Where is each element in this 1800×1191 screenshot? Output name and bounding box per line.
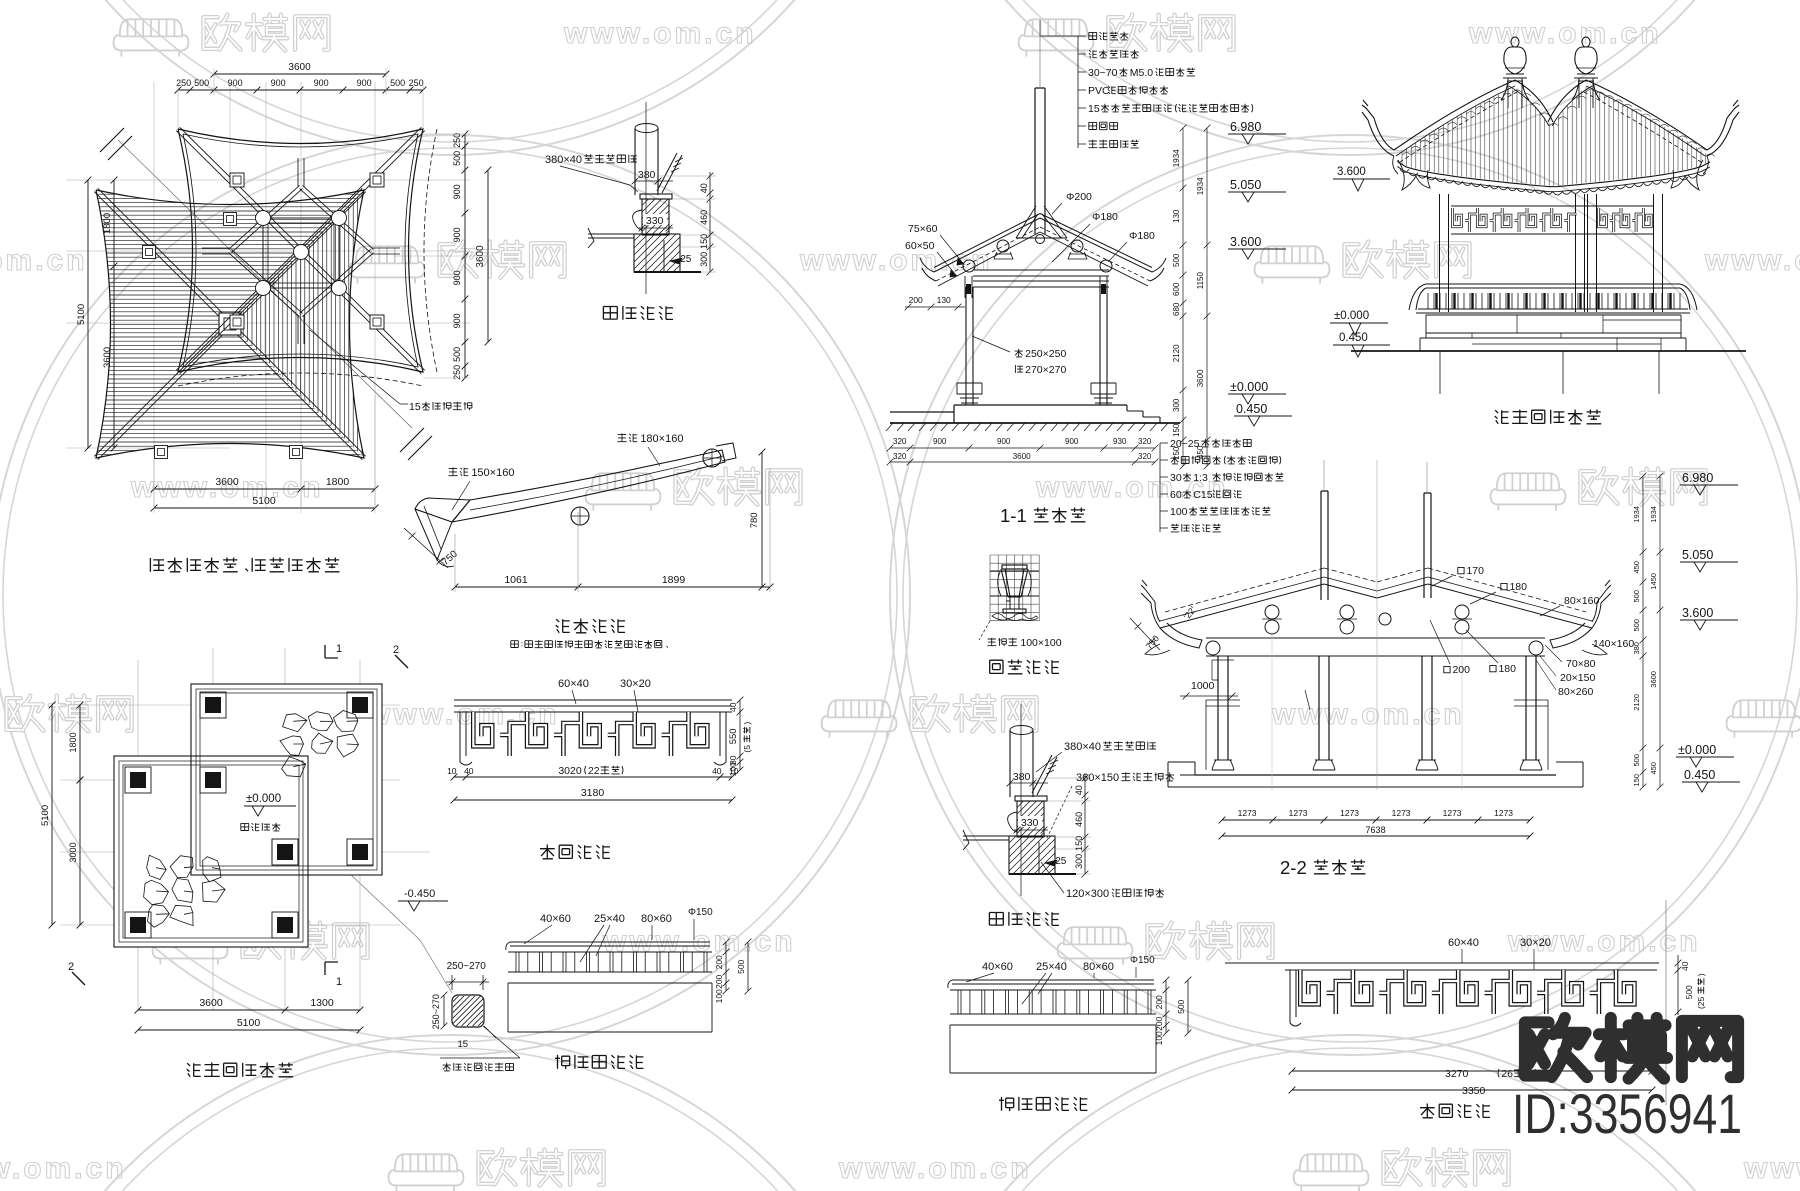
roof plan top dimension chain	[175, 87, 427, 94]
svg-text:2-2: 2-2	[1280, 857, 1307, 878]
svg-text:120×300: 120×300	[1066, 888, 1109, 900]
section 1-1: ground hatch	[886, 423, 1168, 431]
svg-text:180: 180	[1498, 663, 1516, 675]
section 2-2: eave horn left	[1141, 580, 1160, 628]
section 2-2: floor slab and steps	[1195, 774, 1556, 776]
elevation: balustrade top rail curved ends	[1409, 284, 1697, 310]
svg-text:500: 500	[452, 151, 462, 166]
elevation: rafînters (vertical roof texture)	[1402, 87, 1706, 186]
svg-text:320: 320	[893, 437, 907, 446]
svg-text:1273: 1273	[1238, 808, 1257, 818]
svg-text:): )	[1696, 973, 1706, 976]
svg-text:3600: 3600	[102, 347, 113, 368]
svg-text:0.450: 0.450	[1684, 768, 1715, 782]
svg-text:6.980: 6.980	[1230, 120, 1261, 134]
section 2-2	[1130, 460, 1740, 878]
corner rafter bottom dims	[452, 584, 774, 591]
svg-text:1: 1	[336, 976, 342, 988]
svg-text:3.600: 3.600	[1337, 166, 1366, 178]
section 2-2: columns	[1218, 656, 1536, 760]
svg-text:5100: 5100	[237, 1017, 261, 1029]
seat sill: seat plank	[1015, 796, 1047, 801]
column section: square with diagonal hatch	[452, 995, 484, 1027]
railing: top rail	[950, 980, 1156, 990]
svg-text:2120: 2120	[1172, 344, 1181, 362]
caption: roof plan / roof frame plan	[150, 558, 339, 572]
elevation: right corner horn	[1707, 100, 1739, 156]
svg-text:0.450: 0.450	[1236, 402, 1267, 416]
seat sill: center line	[1020, 704, 1022, 896]
svg-text:900: 900	[452, 184, 462, 199]
railing: balusters	[516, 952, 707, 972]
svg-text:60×40: 60×40	[1448, 937, 1479, 949]
elevation: corner fascia waves left	[1398, 160, 1430, 190]
svg-text:380: 380	[638, 169, 656, 181]
svg-text:40: 40	[712, 766, 722, 776]
svg-text:15: 15	[457, 1039, 468, 1050]
inner ring beam square with purlin circles	[263, 218, 339, 288]
pavilion plan bottom dims	[135, 1007, 364, 1014]
railing: skirt band	[950, 1025, 1156, 1073]
section mark 1 bottom	[325, 962, 338, 975]
seat sill: brick pier hatched	[1017, 801, 1044, 837]
corner rafter: young rafter steep piece	[415, 498, 470, 522]
railing right dims	[723, 939, 730, 995]
hanging lattice 2: left end drop	[1290, 970, 1301, 1026]
svg-text:80×60: 80×60	[641, 913, 672, 925]
svg-text:www.om.cn: www.om.cn	[1704, 244, 1800, 277]
right vertical dim 780	[759, 449, 766, 591]
svg-text:1273: 1273	[1494, 808, 1513, 818]
caption hanging lattice detail 1	[540, 845, 610, 859]
svg-text:500: 500	[736, 959, 746, 973]
section 1-1: mast pendant tip	[1036, 235, 1045, 244]
seat sill detail 2	[963, 704, 1174, 926]
floor build-up callout list	[1160, 443, 1168, 532]
svg-text:1273: 1273	[1392, 808, 1411, 818]
pavilion plan left dims	[77, 702, 84, 784]
finial detail: grid mesh	[990, 555, 1039, 621]
svg-text:3.600: 3.600	[1682, 606, 1713, 620]
elevation: right gable ridge band	[1586, 80, 1707, 150]
section 1-1 right dim chain B	[1204, 125, 1211, 470]
seat sill: pier left curl	[633, 210, 642, 230]
break slashes bottom-right	[400, 428, 432, 460]
svg-text:Φ200: Φ200	[1066, 191, 1092, 203]
svg-text:380: 380	[1013, 771, 1031, 783]
section 1-1 right dim chain A	[1180, 125, 1187, 470]
label reinforced concrete column	[440, 1026, 520, 1058]
section 1-1: hanging eave posts	[965, 276, 972, 298]
finial detail: mortar scribbles	[992, 614, 1038, 621]
svg-text:780: 780	[749, 512, 760, 528]
svg-text:25: 25	[1055, 856, 1067, 867]
svg-text:200: 200	[1154, 1016, 1164, 1030]
svg-text:1273: 1273	[1289, 808, 1308, 818]
svg-text:40: 40	[1680, 961, 1690, 971]
svg-text:100: 100	[1154, 1031, 1164, 1045]
wuwangkao railing detail 1	[506, 907, 752, 1069]
roof plan drawing	[66, 62, 493, 572]
svg-text:330: 330	[646, 215, 664, 227]
seat sill: ground line	[1009, 873, 1076, 875]
svg-text:5.050: 5.050	[1230, 178, 1261, 192]
center column marker of roof surface	[219, 313, 241, 335]
svg-text:100×100: 100×100	[1020, 637, 1061, 649]
lattice 1 bottom dims	[451, 774, 736, 781]
svg-text:600: 600	[1172, 282, 1181, 296]
svg-text:-0.450: -0.450	[404, 888, 435, 900]
roof frame outline (upper-right star square)	[178, 129, 423, 372]
svg-text:1934: 1934	[1632, 506, 1641, 523]
svg-text:1450: 1450	[1649, 573, 1658, 590]
svg-text:3600: 3600	[199, 997, 223, 1009]
svg-text:2120: 2120	[1632, 694, 1641, 711]
svg-text:1:3: 1:3	[1193, 472, 1208, 484]
section 1-1: purlin circles	[997, 240, 1009, 252]
svg-text:3600: 3600	[215, 476, 239, 488]
svg-text:6.980: 6.980	[1682, 471, 1713, 485]
svg-text:M5.0: M5.0	[1130, 67, 1154, 79]
corner rafter detail	[404, 433, 773, 648]
corner rafter (qiangjiao) main beam	[452, 450, 725, 522]
section 2-2: masts	[1321, 491, 1328, 600]
svg-text:www.om.cn: www.om.cn	[366, 698, 560, 731]
svg-text:130: 130	[1172, 209, 1181, 223]
elevation: finial 1	[1511, 37, 1519, 47]
svg-text:550: 550	[728, 728, 739, 744]
section 1-1 bottom dims	[887, 445, 1159, 452]
finial detail: vase urn profile	[1002, 565, 1027, 569]
seat sill: seat plank	[640, 194, 672, 199]
pavilion plan: outer walls double line	[114, 684, 382, 947]
section 1-1: kingpost struts	[1016, 206, 1067, 238]
hanging lattice 2: meander band	[1300, 970, 1634, 1014]
elevation: columns	[1440, 194, 1663, 312]
svg-text:3600: 3600	[1013, 452, 1031, 461]
seat sill: pier left curl	[1008, 812, 1017, 832]
seat sill detail 1	[545, 102, 718, 320]
svg-text:500: 500	[194, 78, 209, 88]
svg-text:500: 500	[1176, 999, 1186, 1013]
seat sill: right dimension stack	[1082, 774, 1089, 877]
svg-text:460: 460	[699, 210, 709, 225]
corner rafter: pin circle mid	[571, 507, 589, 525]
svg-text:200: 200	[1154, 995, 1164, 1009]
note 15 thick glass-fiber mesh	[310, 330, 408, 404]
svg-text:3600: 3600	[1196, 369, 1205, 387]
svg-text:900: 900	[314, 78, 329, 88]
pavilion plan: inner corner post	[272, 839, 298, 865]
label young rafter 150x160	[448, 467, 468, 476]
roof plan left dimension chains	[111, 177, 118, 452]
svg-text:(25: (25	[1696, 996, 1706, 1009]
section 2-2: bottom dims	[1219, 817, 1534, 824]
svg-text:5100: 5100	[76, 304, 87, 325]
svg-text:250×250: 250×250	[1025, 348, 1066, 360]
corner rafter: pin circle tip	[703, 449, 721, 467]
svg-text:3000: 3000	[68, 842, 78, 862]
caption corner rafter detail	[556, 619, 625, 633]
seat sill: diagonal brace (seat edge)	[1032, 755, 1057, 795]
railing: balusters	[958, 990, 1151, 1014]
svg-text:300: 300	[1172, 398, 1181, 412]
svg-text:140×160: 140×160	[1593, 638, 1634, 650]
elevation: base platform	[1420, 315, 1686, 338]
svg-text:10: 10	[447, 766, 457, 776]
svg-text:250: 250	[452, 365, 462, 380]
svg-text:www.om.cn: www.om.cn	[0, 1152, 127, 1185]
section 2-2: purlin circle pairs	[1265, 605, 1279, 619]
hanging lattice detail 1	[447, 678, 752, 859]
svg-text:±0.000: ±0.000	[1334, 310, 1369, 322]
label grid 100x100	[979, 621, 990, 640]
seat sill: stone base hatched	[634, 234, 680, 272]
svg-text:500: 500	[1172, 253, 1181, 267]
svg-text:10: 10	[729, 766, 739, 776]
svg-text:60: 60	[1170, 489, 1182, 501]
section 2-2: center line	[1376, 460, 1378, 790]
railing right dims	[1163, 977, 1170, 1037]
seat sill: column	[1010, 730, 1033, 797]
svg-text:60×40: 60×40	[558, 678, 589, 690]
svg-text:Φ150: Φ150	[688, 907, 713, 918]
svg-text:15: 15	[1088, 103, 1100, 115]
svg-text:www.om.cn: www.om.cn	[838, 1152, 1032, 1185]
svg-text:900: 900	[452, 270, 462, 285]
corner rafter: tip end block	[716, 443, 736, 461]
section 1-1: king post / mast	[1035, 88, 1045, 234]
svg-text:900: 900	[452, 313, 462, 328]
svg-text:C15: C15	[1193, 489, 1212, 501]
svg-text:900: 900	[997, 437, 1011, 446]
svg-text:30×20: 30×20	[1520, 937, 1551, 949]
caption finial detail	[990, 660, 1059, 674]
svg-text:500: 500	[1632, 754, 1641, 767]
elevation: right gable inner ridge	[1548, 80, 1586, 122]
seat sill: column	[635, 128, 658, 195]
svg-text:150: 150	[1632, 774, 1641, 787]
svg-text:1000: 1000	[1191, 680, 1215, 692]
roof plan bottom dimension chains	[151, 486, 379, 493]
caption pavilion plan	[187, 1063, 294, 1077]
svg-text:0.450: 0.450	[1339, 332, 1368, 344]
seat sill: dim 330	[643, 214, 667, 225]
svg-text:200: 200	[1452, 664, 1470, 676]
elevation: left gable ridge band	[1394, 80, 1515, 150]
caption elevation	[1495, 410, 1602, 424]
svg-text:1273: 1273	[1443, 808, 1462, 818]
svg-text:3350: 3350	[1462, 1085, 1486, 1097]
label floor finish	[241, 823, 280, 831]
svg-text:180×160: 180×160	[640, 433, 683, 445]
roof plan axis grid lines	[66, 82, 470, 508]
rotated dim 750	[440, 548, 460, 568]
svg-text:150: 150	[1172, 423, 1181, 437]
svg-text:1300: 1300	[310, 997, 334, 1009]
roof plan outline (lower-left star square)	[96, 190, 364, 458]
svg-text:200: 200	[714, 955, 724, 969]
caption seat sill detail 2	[989, 912, 1059, 926]
svg-text:40: 40	[1074, 785, 1084, 795]
svg-text:70×80: 70×80	[1566, 658, 1596, 670]
svg-text:40: 40	[464, 766, 474, 776]
svg-text:250: 250	[409, 78, 424, 88]
elevation: peak posts under finials	[1508, 78, 1593, 108]
svg-text:(5: (5	[742, 745, 752, 753]
svg-text:3020: 3020	[558, 765, 582, 777]
section 1-1: purlin seats	[994, 252, 1087, 259]
column markers (roof frame)	[230, 173, 244, 187]
svg-text:170: 170	[1466, 565, 1484, 577]
seat sill: floor plank	[963, 836, 1009, 840]
seat sill: ground line	[634, 271, 701, 273]
svg-text:3270: 3270	[1445, 1068, 1469, 1080]
seat sill: brick pier hatched	[642, 199, 669, 235]
svg-text:500: 500	[1632, 619, 1641, 632]
svg-text:200: 200	[714, 974, 724, 988]
svg-text:www.om.cn: www.om.cn	[1743, 1152, 1800, 1185]
svg-text:320: 320	[1138, 452, 1152, 461]
railing: bottom rail	[508, 972, 712, 983]
svg-text:380×40: 380×40	[1064, 741, 1101, 753]
svg-text:30~70: 30~70	[1088, 67, 1118, 79]
pavilion plan axis lines	[60, 648, 430, 1010]
elevation: left corner horn	[1362, 100, 1394, 156]
svg-text:26: 26	[1501, 1068, 1513, 1080]
elevation: frieze lattice band	[1451, 206, 1654, 234]
svg-text:20×150: 20×150	[1560, 672, 1595, 684]
elevation: balusters	[1428, 293, 1680, 309]
elevation: balustrade bottom rails	[1416, 309, 1690, 313]
svg-text:200: 200	[909, 295, 923, 305]
svg-text:3.600: 3.600	[1230, 235, 1261, 249]
svg-text:1-1: 1-1	[1000, 505, 1027, 526]
column section: leader from plan	[330, 855, 452, 993]
svg-text:180: 180	[1509, 581, 1527, 593]
svg-text:150×160: 150×160	[471, 467, 514, 479]
svg-text:40×60: 40×60	[540, 913, 571, 925]
svg-text:3180: 3180	[581, 787, 605, 799]
svg-text:80×60: 80×60	[1083, 961, 1114, 973]
svg-text:30: 30	[1170, 472, 1182, 484]
reinforced concrete column section	[330, 855, 520, 1071]
svg-text:40: 40	[728, 702, 738, 712]
svg-text:500: 500	[1632, 590, 1641, 603]
svg-text:5100: 5100	[40, 805, 51, 826]
svg-text:900: 900	[228, 78, 243, 88]
hanging lattice 2: top rail	[1225, 963, 1659, 970]
lattice 2 right dims	[1675, 955, 1682, 1015]
seat sill: floor plank	[588, 234, 634, 238]
railing: top rail	[508, 942, 712, 952]
section 2-2: eave beam	[1206, 638, 1545, 656]
svg-text:60×50: 60×50	[905, 240, 935, 252]
lattice 2 right vertical line	[1665, 900, 1667, 1105]
svg-text:www.om.cn: www.om.cn	[0, 244, 88, 277]
svg-text:±0.000: ±0.000	[1678, 743, 1716, 757]
svg-text:900: 900	[357, 78, 372, 88]
svg-text:930: 930	[1113, 437, 1127, 446]
caption wuwangkao detail	[999, 1097, 1087, 1111]
section 1-1: column bases	[957, 383, 982, 403]
label old rafter 180x160	[617, 433, 637, 442]
svg-text:80×160: 80×160	[1564, 595, 1599, 607]
svg-text:320: 320	[1138, 437, 1152, 446]
svg-text:1: 1	[336, 643, 342, 655]
svg-text:15: 15	[409, 401, 421, 413]
section 1-1: platform and steps	[890, 405, 1127, 423]
svg-text:30×20: 30×20	[620, 678, 651, 690]
svg-text:3600: 3600	[1649, 671, 1658, 688]
section 2-2: column bases	[1212, 760, 1542, 770]
svg-text:680: 680	[1172, 302, 1181, 316]
svg-text:900: 900	[452, 227, 462, 242]
svg-text:40: 40	[699, 183, 709, 193]
section 1-1: eave upturn tips	[920, 258, 1166, 281]
seat sill: stone base hatched	[1009, 836, 1055, 874]
section mark 2 right top	[395, 655, 408, 668]
section 2-2: seat rail left	[1206, 700, 1240, 770]
svg-text:80×260: 80×260	[1558, 686, 1593, 698]
svg-text:150: 150	[699, 234, 709, 249]
svg-text:300: 300	[1074, 854, 1084, 869]
svg-text:250: 250	[176, 78, 191, 88]
svg-text:20~25: 20~25	[1170, 438, 1200, 450]
svg-text:330: 330	[1021, 817, 1039, 829]
site logo OuMoWang (large dark)	[1525, 1018, 1587, 1077]
svg-text:40×60: 40×60	[982, 961, 1013, 973]
svg-text:Φ180: Φ180	[1092, 211, 1118, 223]
hanging lattice 1: end drops	[460, 712, 472, 765]
hip diagonals of roof frame	[176, 127, 424, 373]
svg-text:22: 22	[588, 765, 600, 777]
svg-text:PVC: PVC	[1088, 85, 1110, 97]
pavilion elevation	[1330, 37, 1746, 424]
section 2-2: labels	[1458, 568, 1464, 574]
svg-text:1150: 1150	[1196, 272, 1205, 290]
hip diagonals of roof surface	[94, 188, 365, 459]
diamond ring beam	[229, 185, 374, 316]
section mark 1 top	[325, 645, 338, 658]
label upper 250x250 lower 270x270	[1015, 349, 1023, 357]
svg-text:25×40: 25×40	[1036, 961, 1067, 973]
svg-text:100: 100	[714, 989, 724, 1003]
section 2-2: single purlins at eaves	[1206, 641, 1220, 655]
svg-text:5100: 5100	[252, 495, 276, 507]
caption wuwangkao detail	[555, 1055, 643, 1069]
section 2-2: left column fittings	[1212, 660, 1310, 710]
svg-text:7638: 7638	[1366, 825, 1386, 835]
svg-text:130: 130	[937, 295, 951, 305]
svg-text:25: 25	[680, 254, 692, 265]
finial detail: vase base	[1003, 609, 1026, 613]
section 1-1: columns	[966, 287, 1107, 405]
column section: left dim 250~270	[441, 992, 448, 1030]
svg-text:270×270: 270×270	[1025, 364, 1066, 376]
svg-text:1800: 1800	[68, 732, 78, 752]
elevation: rafter top arcs	[1402, 90, 1715, 157]
seat sill: center line	[645, 102, 647, 294]
svg-text:): )	[742, 722, 752, 725]
svg-text:1273: 1273	[1340, 808, 1359, 818]
center king post circle	[294, 245, 309, 260]
seat sill: diagonal brace (seat edge)	[657, 153, 682, 193]
column markers on roof surface square	[155, 446, 168, 459]
svg-text:900: 900	[1065, 437, 1079, 446]
caption hanging lattice detail 2	[1420, 1104, 1490, 1118]
break slashes top-left	[100, 128, 132, 160]
